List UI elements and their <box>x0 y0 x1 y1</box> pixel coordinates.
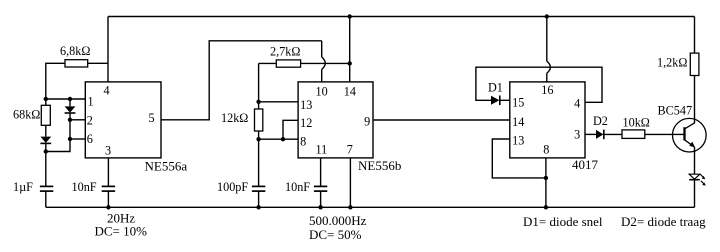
wire pin3 to 10nF <box>107 158 109 186</box>
wire second vertical top <box>69 99 71 106</box>
svg-text:12kΩ: 12kΩ <box>221 111 248 125</box>
capacitor C3 100pF <box>252 186 265 191</box>
diode D1 <box>491 96 500 106</box>
node rail / 10nF <box>106 205 110 209</box>
svg-text:1,2kΩ: 1,2kΩ <box>657 56 687 70</box>
wire 100pF bottom lead <box>258 192 260 208</box>
wire hop over D1 loop wire <box>547 61 551 73</box>
svg-text:3: 3 <box>105 144 111 158</box>
svg-text:10nF: 10nF <box>285 180 310 194</box>
node rail / 100pF <box>256 205 260 209</box>
node 2,7k right / pin14 line <box>348 61 352 65</box>
svg-text:3: 3 <box>574 128 580 142</box>
transistor Q1 BC547 <box>673 118 707 152</box>
diode D2 <box>596 130 604 140</box>
node rail / pin7 <box>348 205 352 209</box>
wire pin8 stub <box>259 138 299 140</box>
svg-text:13: 13 <box>512 134 524 148</box>
wire NE556a pin4 vertical <box>107 17 109 83</box>
wire 2,7k right to pin14 line <box>301 62 350 64</box>
wire 10nF bottom lead <box>107 192 109 208</box>
svg-text:4017: 4017 <box>572 157 599 172</box>
wire LED to ground rail <box>694 180 696 208</box>
wire pin13 stub <box>259 101 299 103</box>
diode D4 (below 68k) <box>40 137 51 144</box>
capacitor C1 1uF <box>40 186 53 191</box>
node pin6 / diode line <box>68 137 72 141</box>
wire pin7 to rail <box>349 158 351 207</box>
svg-text:10kΩ: 10kΩ <box>623 116 650 130</box>
svg-text:100pF: 100pF <box>217 180 248 194</box>
svg-text:10: 10 <box>316 85 328 99</box>
svg-text:1: 1 <box>88 95 94 109</box>
svg-text:4: 4 <box>574 97 580 111</box>
svg-text:2,7kΩ: 2,7kΩ <box>270 45 300 59</box>
wire D1 anode loop up over to pin4 <box>476 67 602 102</box>
IC U1 NE556a <box>85 82 161 158</box>
wire 12k bottom to 100pF <box>258 131 260 186</box>
resistor R3 2,7k <box>276 60 300 67</box>
svg-text:NE556a: NE556a <box>145 159 188 174</box>
wire pin11 to 10nF2 <box>320 158 322 186</box>
wire pin5 to y41 runner <box>161 41 322 120</box>
wire pin16 vertical above hop <box>546 17 548 62</box>
svg-text:D2: D2 <box>593 114 608 128</box>
wire hop over 2,7k wire <box>322 57 326 69</box>
wire 1,2k to collector <box>694 76 696 124</box>
svg-text:DC= 10%: DC= 10% <box>95 223 148 238</box>
svg-text:15: 15 <box>512 96 524 110</box>
node top rail / pin16 line <box>545 14 549 18</box>
svg-text:NE556b: NE556b <box>358 158 401 173</box>
wire pin9 to pin14 of 4017 <box>373 119 510 121</box>
wire 6,8k right to pin4 line <box>88 62 108 64</box>
node pin1 / diode line <box>68 97 72 101</box>
svg-text:5: 5 <box>149 111 155 125</box>
node pin1 / left line <box>44 97 48 101</box>
svg-text:8: 8 <box>300 134 306 148</box>
wire pin10 vertical below hop <box>321 69 323 82</box>
svg-text:2: 2 <box>87 114 93 128</box>
resistor R5 10k <box>622 130 645 139</box>
wire 12k vertical top <box>258 63 260 109</box>
IC U3 4017 <box>510 82 585 158</box>
svg-text:14: 14 <box>344 85 356 99</box>
diode D3 (to pin1/pin2) <box>65 106 76 113</box>
svg-text:12: 12 <box>300 116 312 130</box>
node junction dots <box>44 14 549 209</box>
wire top supply rail <box>108 16 695 18</box>
node pin13 loop / pin8 line <box>544 176 548 180</box>
svg-text:10nF: 10nF <box>72 180 97 194</box>
wire diode2 cathode down to bottom corner <box>46 113 70 152</box>
svg-text:500.000Hz: 500.000Hz <box>309 213 367 228</box>
svg-text:14: 14 <box>512 115 524 129</box>
wire right vertical from rail to 1,2k <box>694 17 696 54</box>
svg-text:13: 13 <box>300 98 312 112</box>
wire 2,7k left <box>259 62 277 64</box>
svg-text:DC= 50%: DC= 50% <box>309 227 362 242</box>
wire D2 cathode to 10k <box>604 133 622 135</box>
wire 1uF bottom lead <box>45 192 47 208</box>
wire 10k to transistor base <box>645 133 685 135</box>
svg-text:D2= diode traag: D2= diode traag <box>621 214 706 229</box>
svg-text:D1: D1 <box>488 81 503 95</box>
node pin12 link / pin8 wire <box>281 137 285 141</box>
wire pin8 of 4017 to rail <box>545 158 547 207</box>
wire pin3 stub to D2 <box>585 133 596 135</box>
svg-text:16: 16 <box>541 83 553 97</box>
LED D5 <box>689 174 706 185</box>
svg-text:8: 8 <box>543 143 549 157</box>
resistor R6 1,2k <box>690 53 699 75</box>
node pin8 / 12k bottom <box>256 137 260 141</box>
wire pin6 stub <box>70 138 85 140</box>
wire pin1 horizontal <box>46 98 86 100</box>
wire 10nF2 bottom lead <box>320 192 322 208</box>
node pin2 / diode line <box>68 118 72 122</box>
wire 6,8k left + left vertical top <box>46 63 65 105</box>
node top rail / pin14 line <box>348 14 352 18</box>
wire pin13 loop down to pin8 line <box>492 139 546 178</box>
wire 68k bottom to diode <box>45 125 47 136</box>
node left line bottom join <box>44 149 48 153</box>
IC U2 NE556b <box>298 82 373 158</box>
wire bottom ground rail <box>46 206 695 208</box>
wire pin2 stub <box>70 119 85 121</box>
capacitor C2 10nF <box>102 186 115 191</box>
wire pin12 L-link <box>283 120 298 139</box>
resistor R4 12k <box>255 109 263 131</box>
wire left diode to 1uF <box>45 144 47 186</box>
svg-text:4: 4 <box>104 84 110 98</box>
svg-text:6: 6 <box>87 132 93 146</box>
svg-text:68kΩ: 68kΩ <box>13 108 40 122</box>
wire pin15 stub to D1 <box>500 99 510 101</box>
node rail / 4017 pin8 <box>544 205 548 209</box>
resistor R1 6,8k <box>65 60 88 67</box>
svg-text:11: 11 <box>316 143 328 157</box>
svg-text:BC547: BC547 <box>658 104 693 118</box>
wire emitter to LED <box>694 147 696 174</box>
wire pin10 vertical above hop <box>321 41 323 57</box>
svg-text:9: 9 <box>364 115 370 129</box>
wire pin16 vertical below hop <box>546 73 548 82</box>
svg-text:1µF: 1µF <box>13 180 33 194</box>
node rail / 10nF2 <box>318 205 322 209</box>
svg-text:6,8kΩ: 6,8kΩ <box>60 44 90 58</box>
node pin13 / 12k top <box>256 100 260 104</box>
resistor R2 68k <box>41 105 50 125</box>
wire pin14 vertical from rail <box>349 17 351 83</box>
capacitor C4 10nF <box>314 186 327 191</box>
svg-text:D1= diode snel: D1= diode snel <box>523 214 603 229</box>
svg-text:7: 7 <box>347 143 353 157</box>
